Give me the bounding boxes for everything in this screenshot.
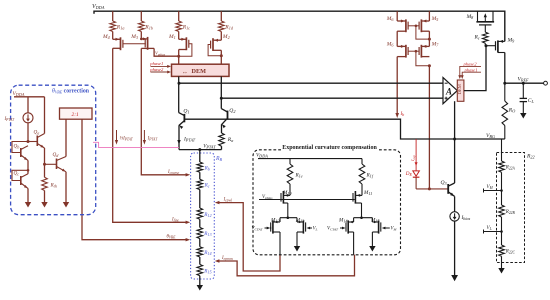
resistor R0 bbox=[504, 83, 506, 101]
wire Icoarse feed bbox=[141, 48, 187, 174]
svg-text:DEM: DEM bbox=[457, 84, 462, 94]
node IPTAT arrow M3 leg bbox=[143, 140, 146, 145]
block DEM vertical at amp bbox=[457, 80, 464, 101]
svg-text:Qb: Qb bbox=[14, 144, 20, 150]
resistor R15 bbox=[197, 264, 203, 275]
svg-text:R22: R22 bbox=[526, 154, 535, 160]
ground M13 bbox=[296, 232, 298, 246]
svg-text:M4: M4 bbox=[102, 34, 110, 40]
wire DEM to Q1 collector bbox=[178, 76, 180, 109]
svg-text:Ifine: Ifine bbox=[171, 217, 179, 222]
wire 2:1 right leg bbox=[81, 118, 83, 120]
wire M4 gate to M3 gate bbox=[123, 43, 146, 45]
resistor R1e bbox=[289, 159, 291, 164]
svg-text:phase1: phase1 bbox=[464, 67, 478, 72]
svg-text:R1d: R1d bbox=[224, 25, 234, 31]
wire exp rail bbox=[258, 158, 362, 160]
ground R22 bbox=[498, 268, 504, 274]
wire Ifine feed bbox=[113, 48, 187, 222]
svg-text:VPTAT: VPTAT bbox=[203, 144, 216, 150]
svg-text:Ieprom: Ieprom bbox=[221, 256, 233, 261]
wire M1 drain to DEM bbox=[178, 50, 180, 65]
svg-text:R14: R14 bbox=[203, 250, 211, 256]
svg-text:M6: M6 bbox=[386, 16, 395, 22]
resistor R14 bbox=[197, 247, 203, 257]
svg-text:VL: VL bbox=[487, 226, 492, 231]
resistor R1f bbox=[361, 159, 363, 164]
wire M7 drain to DE node bbox=[428, 66, 430, 189]
svg-text:R12: R12 bbox=[203, 212, 211, 218]
svg-text:Rb: Rb bbox=[204, 165, 210, 171]
wire M1 gate-drain tie bbox=[179, 44, 192, 57]
wire Q1 Q2 base line to VBG bbox=[184, 119, 504, 139]
svg-text:Rc: Rc bbox=[474, 34, 480, 40]
svg-text:RO: RO bbox=[508, 107, 515, 113]
ground M15 bbox=[371, 232, 373, 246]
current source IPTAT bbox=[27, 97, 29, 113]
wire DEM out1 to amp inverting bbox=[179, 82, 443, 84]
wire M14 drain out bbox=[353, 232, 355, 255]
svg-text:R22B: R22B bbox=[505, 210, 516, 215]
svg-text:VCTAT: VCTAT bbox=[252, 227, 264, 232]
svg-text:M7: M7 bbox=[431, 41, 440, 47]
wire M3 leg from rail bbox=[140, 11, 142, 21]
block thetaVBE correction box bbox=[11, 85, 96, 215]
svg-text:R22C: R22C bbox=[505, 250, 516, 255]
ground Qc bbox=[27, 188, 29, 202]
svg-text:VL: VL bbox=[313, 227, 318, 232]
svg-text:IPTAT: IPTAT bbox=[147, 136, 159, 141]
resistor R22A bbox=[499, 161, 505, 172]
block R22 dashed box bbox=[497, 153, 525, 263]
svg-text:R15: R15 bbox=[203, 268, 211, 274]
wire Iepwl feed bbox=[218, 203, 280, 271]
svg-text:R1c: R1c bbox=[182, 25, 191, 31]
wire amp out to M9 gate bbox=[464, 46, 486, 91]
svg-text:DE: DE bbox=[405, 171, 413, 177]
svg-text:Qa: Qa bbox=[34, 130, 40, 136]
wire R22 top bbox=[501, 139, 503, 161]
svg-text:A: A bbox=[445, 87, 452, 97]
ground Rth bbox=[44, 191, 46, 203]
resistor R22B bbox=[499, 205, 505, 217]
ground CL bbox=[520, 113, 526, 119]
current source Ibias bbox=[450, 212, 459, 221]
wire M6 leg from rail bbox=[396, 11, 398, 21]
wire magenta VPTAT link bbox=[93, 142, 179, 147]
svg-text:phase1: phase1 bbox=[149, 61, 163, 66]
wire DEM out2 to amp non-inverting bbox=[221, 97, 443, 99]
block DEM box bbox=[172, 64, 230, 76]
resistor Rb bbox=[197, 162, 203, 172]
wire DEM to Q2 collector bbox=[220, 76, 222, 105]
svg-text:R1b: R1b bbox=[144, 25, 153, 31]
svg-text:Qd: Qd bbox=[53, 152, 60, 158]
svg-text:phase2: phase2 bbox=[463, 62, 478, 67]
block exponential box bbox=[253, 150, 401, 255]
wire VDDA top rail bbox=[94, 11, 505, 41]
svg-text:M5: M5 bbox=[431, 16, 439, 22]
wire VREF node bbox=[505, 82, 544, 84]
svg-text:Ra: Ra bbox=[227, 137, 234, 143]
svg-text:M11: M11 bbox=[363, 190, 372, 196]
svg-text:M12: M12 bbox=[270, 218, 280, 224]
wire M2 drain to DEM bbox=[220, 50, 222, 64]
wire amp bottom to Q3 bbox=[454, 101, 456, 181]
diode DE bbox=[415, 139, 417, 171]
wire Vpbias from M3 drain bbox=[154, 48, 179, 56]
svg-text:VDDA: VDDA bbox=[256, 153, 268, 159]
wire VPTAT node bbox=[179, 149, 222, 151]
svg-text:Q2: Q2 bbox=[229, 108, 235, 114]
svg-text:M2: M2 bbox=[222, 34, 230, 40]
resistor R13 bbox=[197, 227, 203, 238]
svg-text:Iepwl: Iepwl bbox=[223, 198, 232, 203]
wire right tail bar bbox=[354, 217, 373, 219]
wire M1 leg from rail bbox=[178, 11, 180, 21]
svg-text:VCTAT: VCTAT bbox=[327, 227, 339, 232]
wire M9 gate bbox=[485, 45, 495, 47]
wire M6-M5 gate tie bbox=[408, 25, 419, 27]
wire thetaVBE feed bbox=[82, 119, 187, 240]
capacitor CL bbox=[522, 83, 524, 98]
svg-text:R1f: R1f bbox=[366, 172, 374, 178]
resistor R1a bbox=[110, 21, 116, 32]
wire left tail bar bbox=[280, 217, 297, 219]
svg-text:Rc: Rc bbox=[204, 183, 210, 189]
wire Vpbias exp line bbox=[259, 199, 355, 201]
wire M6b drain current Ib bbox=[396, 57, 398, 114]
svg-text:Q1: Q1 bbox=[183, 108, 189, 114]
block 2:1 mux bbox=[60, 108, 93, 119]
svg-text:2:1: 2:1 bbox=[72, 112, 79, 118]
svg-text:phase2: phase2 bbox=[149, 67, 164, 72]
resistor Rc bbox=[197, 179, 203, 189]
svg-text:Rth: Rth bbox=[50, 182, 57, 188]
svg-text:θVBE: θVBE bbox=[167, 235, 177, 240]
resistor R1c bbox=[176, 21, 182, 32]
svg-text:RB: RB bbox=[215, 156, 223, 162]
svg-text:IPTAT: IPTAT bbox=[4, 117, 16, 122]
svg-text:M8: M8 bbox=[466, 14, 475, 20]
resistor R1d bbox=[219, 21, 225, 32]
resistor Ra bbox=[219, 133, 225, 146]
ground Ibias bbox=[454, 221, 456, 275]
svg-text:DEM: DEM bbox=[192, 68, 207, 75]
svg-text:R1a: R1a bbox=[116, 25, 125, 31]
svg-text:Qc: Qc bbox=[14, 170, 20, 176]
svg-text:VBG: VBG bbox=[486, 133, 495, 139]
svg-text:M9: M9 bbox=[507, 38, 516, 44]
resistor Rc bbox=[484, 25, 486, 32]
svg-text:Exponential curvature compensa: Exponential curvature compensation bbox=[282, 145, 377, 151]
svg-text:M6: M6 bbox=[386, 41, 395, 47]
svg-text:VREF: VREF bbox=[518, 76, 530, 82]
wire M12 drain out bbox=[279, 232, 281, 255]
resistor Rth bbox=[44, 176, 46, 178]
resistor R1b bbox=[139, 21, 145, 32]
ground Qd bbox=[65, 172, 67, 202]
svg-text:Q3: Q3 bbox=[441, 180, 447, 186]
node VREF terminal bbox=[544, 81, 548, 85]
block RB dashed box bbox=[191, 153, 215, 279]
node one-third IPTAT arrow bbox=[115, 140, 118, 145]
svg-text:M1: M1 bbox=[168, 34, 176, 40]
svg-text:VM: VM bbox=[487, 185, 494, 190]
wire M4 leg from rail bbox=[112, 11, 114, 21]
svg-text:θVBE correction: θVBE correction bbox=[52, 89, 90, 95]
svg-text:Icoarse: Icoarse bbox=[167, 170, 180, 175]
wire chain top bbox=[199, 150, 201, 162]
svg-text:IPTAT: IPTAT bbox=[183, 137, 196, 143]
svg-text:Vpbias: Vpbias bbox=[262, 195, 273, 200]
svg-text:Ib: Ib bbox=[400, 112, 405, 117]
svg-text:VDDA: VDDA bbox=[13, 91, 25, 97]
svg-text:R1e: R1e bbox=[295, 172, 303, 178]
node IPTAT arrow at Q1 emitter bbox=[177, 140, 180, 145]
wire M9 source to VREF bbox=[504, 53, 506, 84]
svg-text:M3: M3 bbox=[130, 34, 138, 40]
ground chain bbox=[199, 276, 201, 285]
op-amp A bbox=[443, 78, 457, 104]
wire box rail bbox=[14, 96, 45, 98]
wire Ieprom feed bbox=[218, 255, 355, 276]
svg-text:R13: R13 bbox=[203, 231, 211, 237]
svg-text:Ibias: Ibias bbox=[461, 215, 471, 221]
wire M2 leg from rail bbox=[220, 11, 222, 21]
wire M2 gate-drain tie bbox=[208, 45, 221, 56]
resistor R12 bbox=[197, 208, 203, 219]
svg-text:⅓IPTAT: ⅓IPTAT bbox=[120, 136, 134, 141]
svg-text:R22A: R22A bbox=[505, 166, 516, 171]
svg-text:↔: ↔ bbox=[182, 69, 188, 75]
svg-text:CL: CL bbox=[528, 98, 535, 104]
wire DE to Q3 base bbox=[415, 177, 417, 189]
resistor R22C bbox=[499, 245, 505, 256]
wire M6b-M7 gate tie bbox=[408, 50, 419, 52]
